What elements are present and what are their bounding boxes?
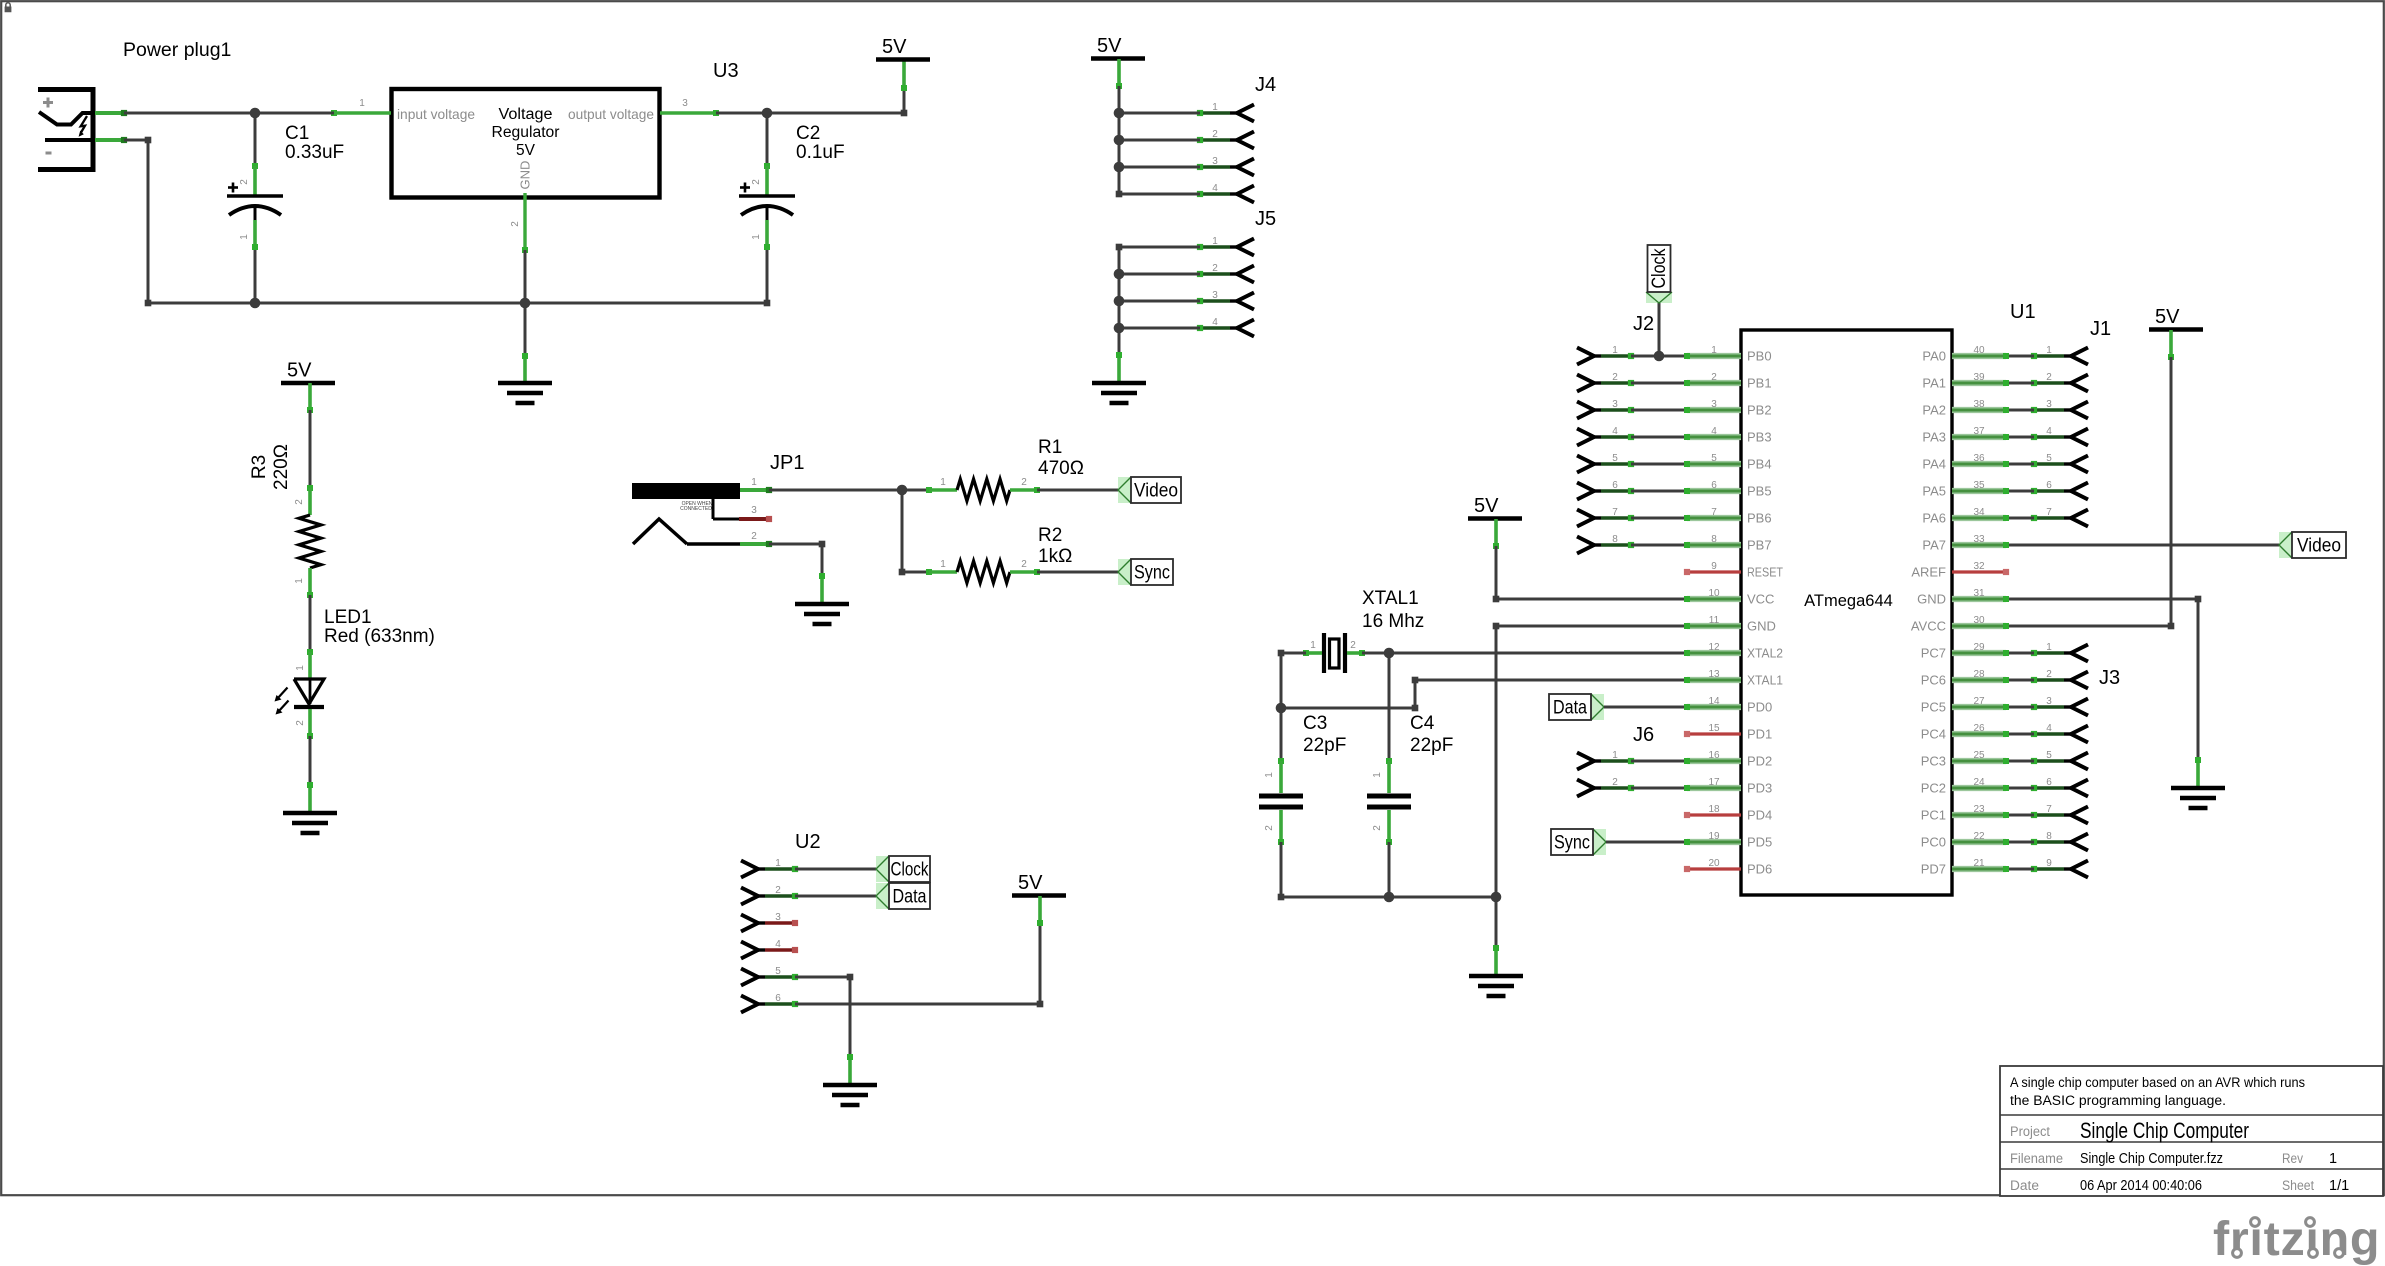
connector J1 pin 5 (2031, 453, 2088, 473)
svg-text:1: 1 (1612, 750, 1618, 761)
svg-text:12: 12 (1708, 642, 1720, 653)
svg-text:1: 1 (940, 559, 946, 570)
svg-text:PB6: PB6 (1747, 511, 1772, 526)
U1 pin 31 GND (1917, 588, 2006, 607)
wire bend up to 5V (903, 88, 906, 113)
svg-text:5V: 5V (2155, 306, 2180, 328)
svg-text:1: 1 (751, 477, 757, 488)
svg-text:A single chip computer based o: A single chip computer based on an AVR w… (2010, 1075, 2305, 1090)
wire J2 pin 2 to U1 (1631, 380, 1690, 386)
wire video node down to R2 (899, 490, 929, 575)
connector U2 label (795, 831, 821, 853)
svg-text:PB4: PB4 (1747, 457, 1772, 472)
U1 pin 15 PD1 (1684, 723, 1772, 742)
wire Clock flag to clock node (1658, 303, 1661, 356)
connector J2 pin 1 (1577, 345, 1634, 365)
wire gnd bus down (1495, 897, 1498, 948)
svg-text:2: 2 (2046, 669, 2052, 680)
connector J1 pin 2 (2031, 372, 2088, 392)
svg-text:1: 1 (295, 665, 306, 671)
wire U1 to J1 pin 1 (2003, 353, 2034, 359)
svg-text:36: 36 (1973, 453, 1985, 464)
ground symbol (U2) (823, 1054, 877, 1105)
title block box (2000, 1066, 2383, 1196)
svg-text:35: 35 (1973, 480, 1985, 491)
svg-text:0.33uF: 0.33uF (285, 142, 344, 163)
svg-text:Sync: Sync (1554, 833, 1590, 854)
svg-text:Regulator: Regulator (492, 124, 560, 141)
U1 pin 26 PC4 (1921, 723, 2006, 742)
connector J3 pin 3 (2031, 696, 2088, 716)
svg-text:3: 3 (1212, 290, 1218, 301)
wire plug pin2 down to ground bus (124, 137, 255, 307)
svg-text:PB1: PB1 (1747, 376, 1772, 391)
capacitor C3 (1259, 758, 1303, 845)
connector J2 pin 4 (1577, 426, 1634, 446)
svg-text:XTAL1: XTAL1 (1362, 588, 1419, 609)
voltage regulator U3 box (392, 89, 660, 198)
wire R1 to Video flag (1037, 489, 1118, 492)
node J5 bus junction 3 (1114, 296, 1125, 307)
U1 pin 30 AVCC (1911, 615, 2006, 634)
5V rail symbol (output) (876, 36, 930, 91)
node plug/C1/U3 junction (250, 108, 261, 119)
svg-text:7: 7 (1612, 507, 1618, 518)
wire U1 GND to ground (1493, 623, 1690, 897)
svg-text:40: 40 (1973, 345, 1985, 356)
svg-text:2: 2 (510, 221, 521, 227)
R2 pin numbers (940, 559, 1027, 570)
svg-text:8: 8 (2046, 831, 2052, 842)
svg-text:1kΩ: 1kΩ (1038, 546, 1072, 567)
U1 pin 8 PB7 (1687, 534, 1772, 553)
wire xtal gnd bus (1278, 894, 1496, 901)
svg-text:4: 4 (1212, 317, 1218, 328)
C3 pin numbers (1264, 772, 1275, 831)
net flag Video (U1) (2279, 532, 2346, 558)
svg-text:1: 1 (239, 234, 250, 240)
wire U1 to J3 pin 9 (2003, 866, 2034, 872)
svg-text:GND: GND (518, 161, 533, 190)
svg-text:5V: 5V (882, 36, 907, 58)
svg-text:1: 1 (1264, 772, 1275, 778)
wire C1 to ground bus (254, 250, 257, 303)
svg-text:2: 2 (1612, 372, 1618, 383)
connector J4 pin 3 (1197, 156, 1254, 176)
C2 pin 2 number (751, 179, 762, 185)
5V rail symbol (LED) (281, 360, 335, 414)
U1 pin 40 PA0 (1922, 345, 2006, 364)
wire U1 GND(31) to ground (2003, 596, 2201, 760)
svg-text:output voltage: output voltage (568, 106, 654, 122)
ground symbol (right) (2171, 757, 2225, 808)
connector J3 pin 5 (2031, 750, 2088, 770)
U1 pin 12 XTAL2 (1687, 642, 1783, 661)
svg-text:5: 5 (2046, 453, 2052, 464)
svg-text:8: 8 (1612, 534, 1618, 545)
wire JP1 pin1 to video node (769, 489, 902, 492)
svg-text:28: 28 (1973, 669, 1985, 680)
connector J3 pin 8 (2031, 831, 2088, 851)
svg-text:C3: C3 (1303, 713, 1327, 734)
C2 pin 1 number (751, 234, 762, 240)
connector U2 pin 5 (741, 966, 798, 986)
ground symbol (LED) (283, 782, 337, 833)
IC U1 ATmega644 box (1741, 330, 1952, 895)
svg-text:1: 1 (940, 477, 946, 488)
node J4 bus junction 3 (1114, 162, 1125, 173)
wire C4 top (1388, 653, 1391, 761)
crystal XTAL1 label (1362, 588, 1424, 632)
capacitor C2 (739, 163, 795, 250)
wire U2 pin1 to Clock flag (795, 868, 876, 871)
connector J6 label (1633, 724, 1654, 746)
wire gnd bus J5 (1116, 244, 1123, 355)
5V rail symbol (J4) (1091, 35, 1145, 89)
svg-text:13: 13 (1708, 669, 1720, 680)
C1 pin 1 number (239, 234, 250, 240)
C2 value label (796, 123, 845, 163)
U1 pin 37 PA3 (1922, 426, 2006, 445)
svg-text:23: 23 (1973, 804, 1985, 815)
svg-text:JP1: JP1 (770, 452, 804, 474)
svg-text:24: 24 (1973, 777, 1985, 788)
power plug pin 2 leg (95, 137, 127, 143)
wire J2 pin 4 to U1 (1631, 434, 1690, 440)
wire U1 to J3 pin 2 (2003, 677, 2034, 683)
wire J2 pin 5 to U1 (1631, 461, 1690, 467)
JP1 sleeve contact (633, 519, 740, 544)
R3 value label (249, 444, 292, 490)
connector U2 pin 1 (741, 858, 798, 878)
svg-text:Clock: Clock (1649, 248, 1670, 288)
svg-text:1: 1 (1711, 345, 1717, 356)
svg-text:J2: J2 (1633, 313, 1654, 335)
JP1 pin 3 stub (open) (713, 499, 772, 522)
connector J1 label (2090, 318, 2111, 340)
wire J2 pin 7 to U1 (1631, 515, 1690, 521)
U1 pin 11 GND (1687, 615, 1776, 634)
resistor R2 (926, 561, 1040, 583)
svg-text:29: 29 (1973, 642, 1985, 653)
svg-text:1: 1 (1212, 236, 1218, 247)
5V rail symbol (AVCC) (2149, 306, 2203, 360)
U1 pin 34 PA6 (1922, 507, 2006, 526)
svg-text:LED1: LED1 (324, 607, 372, 628)
wire video node to R1 (902, 489, 929, 492)
U3 inner labels (397, 106, 654, 190)
svg-text:3: 3 (1711, 399, 1717, 410)
wire J4 pin 4 (1119, 193, 1200, 196)
connector J4 pin 2 (1197, 129, 1254, 149)
node U3 out / C2 junction (762, 108, 773, 119)
U1 pin 39 PA1 (1922, 372, 2006, 391)
net flag Clock (U2) (876, 856, 930, 882)
svg-text:38: 38 (1973, 399, 1985, 410)
svg-text:9: 9 (2046, 858, 2052, 869)
svg-text:14: 14 (1708, 696, 1720, 707)
node J5 bus junction 4 (1114, 323, 1125, 334)
wire plug pin1 to C1 (124, 112, 255, 115)
svg-text:PA2: PA2 (1922, 403, 1946, 418)
wire C2 node to C2 (766, 113, 769, 166)
connector J2 pin 3 (1577, 399, 1634, 419)
wire J5 pin 4 (1119, 327, 1200, 330)
svg-text:3: 3 (1612, 399, 1618, 410)
connector J3 pin 1 (2031, 642, 2088, 662)
svg-text:PC1: PC1 (1921, 808, 1946, 823)
wire J2 pin 6 to U1 (1631, 488, 1690, 494)
wire U2 pin6 to 5V (795, 924, 1043, 1007)
svg-text:Filename: Filename (2010, 1151, 2063, 1166)
fritzing logo (2213, 1212, 2380, 1266)
svg-text:6: 6 (775, 993, 781, 1004)
svg-text:PA5: PA5 (1922, 484, 1946, 499)
wire J5 pin 3 (1119, 300, 1200, 303)
svg-text:PC2: PC2 (1921, 781, 1946, 796)
connector J1 pin 6 (2031, 480, 2088, 500)
net flag Data (U1) (1549, 694, 1604, 720)
svg-text:PB7: PB7 (1747, 538, 1772, 553)
svg-text:26: 26 (1973, 723, 1985, 734)
connector J1 pin 4 (2031, 426, 2088, 446)
svg-text:15: 15 (1708, 723, 1720, 734)
svg-text:5: 5 (1711, 453, 1717, 464)
LED1 arrows (275, 688, 289, 715)
wire 5V to U1 AVCC (2003, 357, 2174, 629)
svg-text:1: 1 (1212, 102, 1218, 113)
connector J5 pin 1 (1197, 236, 1254, 256)
R3 pin 2 number (294, 499, 305, 505)
svg-text:PC7: PC7 (1921, 646, 1946, 661)
connector J3 pin 4 (2031, 723, 2088, 743)
lock icon (5, 3, 12, 13)
wire gnd junction down (524, 303, 527, 356)
svg-text:PD6: PD6 (1747, 862, 1772, 877)
svg-text:17: 17 (1708, 777, 1720, 788)
wire 5V to R3 (309, 410, 312, 488)
U1 pin 3 PB2 (1687, 399, 1772, 418)
wire U1 to J3 pin 4 (2003, 731, 2034, 737)
svg-text:2: 2 (1212, 129, 1218, 140)
U1 pin 28 PC6 (1921, 669, 2006, 688)
svg-text:Rev: Rev (2282, 1151, 2303, 1166)
svg-text:6: 6 (1711, 480, 1717, 491)
svg-text:5: 5 (775, 966, 781, 977)
wire R2 to Sync flag (1037, 571, 1118, 574)
svg-text:C4: C4 (1410, 713, 1435, 734)
svg-text:6: 6 (2046, 480, 2052, 491)
svg-text:20: 20 (1708, 858, 1720, 869)
svg-text:PC3: PC3 (1921, 754, 1946, 769)
svg-text:Sheet: Sheet (2282, 1178, 2314, 1193)
svg-text:32: 32 (1973, 561, 1985, 572)
ground symbol (JP1) (795, 573, 849, 624)
resistor R1 (926, 479, 1040, 501)
R1 value label (1038, 437, 1084, 479)
svg-text:1: 1 (2046, 345, 2052, 356)
svg-text:J3: J3 (2099, 667, 2120, 689)
wire JP1 pin2 to ground (769, 541, 825, 576)
U1 pin 17 PD3 (1687, 777, 1772, 796)
U1 pin 10 VCC (1687, 588, 1774, 607)
U1 pin 27 PC5 (1921, 696, 2006, 715)
svg-text:C2: C2 (796, 123, 820, 144)
wire C3 to gnd bus (1280, 842, 1283, 897)
U1 pin 32 AREF (1911, 561, 2009, 580)
svg-text:the BASIC programming language: the BASIC programming language. (2010, 1093, 2226, 1108)
svg-text:CONNECTED: CONNECTED (680, 506, 712, 512)
connector J1 pin 7 (2031, 507, 2088, 527)
connector J5 label (1255, 208, 1276, 230)
R3 pin 1 number (294, 578, 305, 584)
connector J2 pin 7 (1577, 507, 1634, 527)
wire C2 node to 5V bend (767, 110, 907, 117)
title block date row (2010, 1178, 2349, 1194)
svg-text:5V: 5V (1018, 872, 1043, 894)
U1 pin 4 PB3 (1687, 426, 1772, 445)
svg-text:input voltage: input voltage (397, 106, 475, 122)
svg-text:2: 2 (751, 531, 757, 542)
svg-text:2: 2 (1350, 640, 1356, 651)
wire C3 top (1280, 708, 1283, 761)
U1 pin 2 PB1 (1687, 372, 1772, 391)
svg-text:4: 4 (1212, 183, 1218, 194)
wire U1 to J1 pin 5 (2003, 461, 2034, 467)
title block description (2010, 1075, 2305, 1108)
connector J3 pin 6 (2031, 777, 2088, 797)
connector J5 pin 2 (1197, 263, 1254, 283)
wire Data flag to U1 PD0 (1604, 704, 1690, 710)
wire J2 pin1 to clock node (1631, 355, 1659, 358)
connector J3 pin 7 (2031, 804, 2088, 824)
svg-text:16 Mhz: 16 Mhz (1362, 611, 1424, 632)
svg-text:9: 9 (1711, 561, 1717, 572)
net flag Sync (R2) (1118, 559, 1173, 585)
svg-text:37: 37 (1973, 426, 1985, 437)
wire U1 XTAL1 path (1281, 677, 1690, 712)
wire U1 to J3 pin 1 (2003, 650, 2034, 656)
svg-text:34: 34 (1973, 507, 1985, 518)
jumper JP1 label (770, 452, 804, 474)
U1 pin 35 PA5 (1922, 480, 2006, 499)
C1 pin 2 number (239, 179, 250, 185)
connector J4 label (1255, 74, 1276, 96)
ground symbol (regulator) (498, 353, 552, 403)
wire junction to C1 (254, 113, 257, 166)
U1 pin 38 PA2 (1922, 399, 2006, 418)
svg-text:Clock: Clock (891, 860, 929, 881)
svg-text:1: 1 (775, 858, 781, 869)
wire J4 pin 1 (1119, 112, 1200, 115)
svg-text:PA0: PA0 (1922, 349, 1946, 364)
wire R3 to LED1 (309, 595, 312, 652)
svg-text:3: 3 (682, 98, 688, 109)
wire U1 to J3 pin 3 (2003, 704, 2034, 710)
svg-text:3: 3 (2046, 399, 2052, 410)
connector U2 pin 4 (741, 939, 798, 959)
svg-text:0.1uF: 0.1uF (796, 142, 845, 163)
svg-text:2: 2 (1021, 477, 1027, 488)
svg-text:2: 2 (1021, 559, 1027, 570)
U1 pin 18 PD4 (1684, 804, 1772, 823)
svg-text:2: 2 (2046, 372, 2052, 383)
wire U1 to J3 pin 7 (2003, 812, 2034, 818)
wire U1 to J1 pin 6 (2003, 488, 2034, 494)
connector J5 pin 3 (1197, 290, 1254, 310)
crystal XTAL1 (1303, 633, 1365, 673)
ground bus wire (255, 300, 770, 307)
svg-text:AREF: AREF (1911, 565, 1946, 580)
wire J2 pin 3 to U1 (1631, 407, 1690, 413)
wire crystal pin2 (1362, 652, 1389, 655)
svg-text:2: 2 (1612, 777, 1618, 788)
wire U1 to J1 pin 7 (2003, 515, 2034, 521)
svg-text:PC0: PC0 (1921, 835, 1946, 850)
svg-text:2: 2 (1372, 825, 1383, 831)
svg-text:3: 3 (751, 505, 757, 516)
node video junction (897, 485, 908, 496)
svg-text:4: 4 (2046, 426, 2052, 437)
connector J6 pin 2 (1577, 777, 1634, 797)
wire U1 to J3 pin 5 (2003, 758, 2034, 764)
ground symbol (J5) (1092, 352, 1146, 403)
svg-text:3: 3 (1212, 156, 1218, 167)
svg-text:22: 22 (1973, 831, 1985, 842)
5V rail symbol (U2) (1012, 872, 1066, 926)
title block filename row (2010, 1151, 2337, 1167)
U1 pin 5 PB4 (1687, 453, 1772, 472)
svg-text:4: 4 (775, 939, 781, 950)
capacitor C1 (227, 163, 283, 250)
svg-text:PD7: PD7 (1921, 862, 1946, 877)
node J5 bus junction 2 (1114, 269, 1125, 280)
net flag Sync (U1) (1551, 829, 1606, 855)
svg-text:PD4: PD4 (1747, 808, 1772, 823)
U1 pin 6 PB5 (1687, 480, 1772, 499)
connector J2 pin 8 (1577, 534, 1634, 554)
svg-text:U1: U1 (2010, 301, 2036, 323)
R1 pin numbers (940, 477, 1027, 488)
svg-text:XTAL2: XTAL2 (1747, 646, 1783, 661)
svg-text:5V: 5V (1474, 495, 1499, 517)
U1 pin 20 PD6 (1684, 858, 1772, 877)
svg-text:J6: J6 (1633, 724, 1654, 746)
node XTAL2/C4 junction (1384, 648, 1395, 659)
svg-text:2: 2 (751, 179, 762, 185)
capacitor C4 (1367, 758, 1411, 845)
svg-text:8: 8 (1711, 534, 1717, 545)
node XTAL1/C3 junction (1276, 703, 1287, 714)
svg-text:22pF: 22pF (1410, 735, 1453, 756)
svg-text:2: 2 (1711, 372, 1717, 383)
svg-text:ATmega644: ATmega644 (1804, 592, 1893, 610)
5V rail symbol (VCC) (1468, 495, 1522, 549)
svg-text:C1: C1 (285, 123, 309, 144)
svg-text:Date: Date (2010, 1178, 2039, 1193)
svg-text:1: 1 (359, 98, 365, 109)
connector J4 pin 4 (1197, 183, 1254, 203)
LED1 pin 1 number (295, 665, 306, 671)
C3 value label (1303, 713, 1346, 756)
U1 pin 13 XTAL1 (1687, 669, 1783, 688)
svg-text:2: 2 (239, 179, 250, 185)
wire LED1 to ground (309, 736, 312, 785)
svg-text:30: 30 (1973, 615, 1985, 626)
wire crystal pin1 to C3 (1278, 650, 1306, 708)
node C1/ground-bus junction (250, 298, 261, 309)
connector J2 label (1633, 313, 1654, 335)
